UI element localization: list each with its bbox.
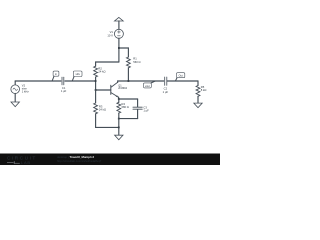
- node flag Out: [176, 73, 185, 81]
- wire branch to R1: [119, 48, 128, 57]
- label R2 24 kohm: [98, 66, 105, 73]
- bottom rail R4/C3: [119, 118, 138, 120]
- svg-text:680 Ω: 680 Ω: [122, 105, 129, 109]
- svg-text:Out: Out: [179, 75, 183, 78]
- CircuitLab logo: [7, 156, 37, 165]
- node dot R3 join: [118, 127, 120, 129]
- input rail from source to divider: [15, 80, 95, 82]
- voltage source V1: [114, 29, 123, 38]
- footer bar: [0, 154, 220, 166]
- emitter rail to C3: [119, 98, 138, 100]
- label C1 1uF: [61, 86, 67, 93]
- wire R2 bottom to divider node: [95, 77, 97, 90]
- node junction at branch: [118, 47, 120, 49]
- label Q1 2N3904: [118, 85, 127, 91]
- svg-text:vout: vout: [145, 85, 150, 88]
- node dot emitter: [118, 98, 120, 100]
- ground below V2: [11, 102, 19, 107]
- ground symbol center: [115, 135, 123, 140]
- svg-text:24 kΩ: 24 kΩ: [98, 70, 105, 74]
- svg-text:24 kΩ: 24 kΩ: [99, 108, 106, 112]
- node dot rail/divider: [95, 80, 97, 82]
- svg-text:1 kHz: 1 kHz: [22, 90, 30, 94]
- node flag vdiv: [72, 71, 82, 81]
- node dot base tap: [95, 89, 97, 91]
- capacitor C1: [61, 77, 64, 86]
- wire R3 bottom to ground stem: [96, 114, 119, 128]
- label R5 8 kohm: [201, 85, 207, 92]
- label V2 sine 1 kHz: [22, 83, 30, 93]
- label C3 1uF: [143, 105, 149, 112]
- collector rail y81: [118, 80, 198, 82]
- resistor R3: [95, 90, 97, 103]
- label V1 10 V: [107, 30, 113, 37]
- node dot R4 bottom: [118, 118, 120, 120]
- svg-text:560 Ω: 560 Ω: [133, 60, 140, 64]
- label R4 680 ohm: [122, 102, 129, 109]
- wire corner left to R2 top: [96, 62, 119, 66]
- transistor Q1 2N3904: [111, 81, 119, 99]
- svg-text:1 µF: 1 µF: [163, 90, 169, 94]
- resistor R2: [94, 66, 98, 77]
- svg-text:10 V: 10 V: [107, 33, 113, 37]
- node flag in: [52, 71, 59, 81]
- svg-text:1 µF: 1 µF: [61, 89, 67, 93]
- label R3 24 kohm: [99, 105, 106, 112]
- wire V1 bottom to branch corner: [118, 38, 120, 62]
- resistor R1: [127, 57, 131, 68]
- base wire from divider to Q1: [96, 89, 111, 91]
- resistor R5: [197, 81, 199, 86]
- AC source V2: [11, 81, 20, 102]
- ground stem center: [118, 119, 120, 136]
- svg-text:vdiv: vdiv: [75, 73, 80, 76]
- power flag V+ arrow: [115, 17, 124, 29]
- svg-text:8 kΩ: 8 kΩ: [201, 88, 207, 92]
- ground below R5: [194, 103, 202, 108]
- label C2 1uF: [163, 87, 169, 94]
- svg-text:LAB: LAB: [21, 160, 31, 165]
- node flag vout: [144, 81, 156, 88]
- label R1 560 ohm: [133, 57, 140, 64]
- capacitor C3: [133, 99, 142, 119]
- node dot R1/collector: [128, 80, 130, 82]
- resistor R4: [118, 99, 120, 102]
- svg-text:2N3904: 2N3904: [118, 87, 127, 90]
- wire R1 bottom to collector rail: [127, 68, 129, 81]
- svg-text:1 µF: 1 µF: [143, 109, 149, 113]
- svg-text:http://circuitlab.com/c/2w2hsd: http://circuitlab.com/c/2w2hsda8vq7: [57, 159, 102, 163]
- capacitor C2: [164, 77, 167, 86]
